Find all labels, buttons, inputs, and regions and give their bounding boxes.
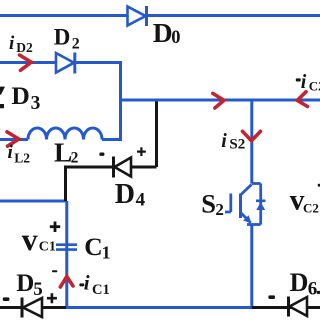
wire bottom black left: [0, 306, 66, 309]
svg-text:1: 1: [102, 242, 111, 262]
svg-text:5: 5: [33, 279, 43, 300]
arrow iL2: [7, 132, 19, 146]
label D0: [153, 17, 181, 48]
svg-text:C1: C1: [92, 282, 110, 298]
svg-text:C2: C2: [303, 201, 319, 216]
arrow -iC1: [60, 277, 73, 288]
svg-text:L2: L2: [14, 151, 30, 166]
label L2: [54, 136, 79, 167]
svg-text:D: D: [153, 17, 173, 48]
wire mid bus B: [119, 99, 320, 102]
label vC2: [290, 185, 319, 217]
wire black D4 vertical right: [155, 102, 158, 168]
wire top bus: [0, 14, 320, 17]
wire bottom black right: [252, 306, 320, 309]
svg-text:i: i: [221, 130, 227, 152]
wire black D4 vertical left: [64, 167, 67, 201]
svg-text:D: D: [54, 24, 71, 49]
svg-text:6: 6: [308, 279, 318, 300]
svg-text:i: i: [301, 71, 307, 93]
label D5: [16, 270, 43, 300]
diode D4: [114, 157, 132, 178]
svg-text:D: D: [16, 270, 34, 297]
label vC2 plus cropped: [318, 184, 320, 187]
label C1: [84, 232, 110, 262]
label D4: [115, 179, 146, 211]
wire black D4 horizontal: [64, 166, 157, 169]
svg-text:D: D: [11, 81, 29, 110]
svg-text:S2: S2: [229, 137, 245, 153]
diode D6: [289, 297, 308, 317]
inductor L2: [28, 128, 102, 140]
label D4 plus: [137, 147, 146, 156]
svg-text:D2: D2: [16, 40, 33, 55]
label -iC2: [301, 71, 320, 94]
wire vertical C: [250, 100, 253, 184]
wire vertical E C1 branch: [65, 201, 68, 308]
label D5 plus: [47, 293, 57, 303]
label iD2: [9, 33, 33, 55]
label D6: [290, 268, 318, 300]
svg-text:2: 2: [71, 150, 79, 167]
svg-text:0: 0: [171, 28, 180, 48]
label C1 minus: [52, 270, 57, 272]
svg-text:i: i: [84, 271, 90, 295]
label C1 plus: [50, 222, 60, 233]
wire vertical D: [250, 225, 253, 308]
wire D2 branch: [0, 61, 121, 64]
svg-text:4: 4: [136, 190, 146, 211]
S2 antiparallel diode: [256, 201, 266, 210]
wire vertical A: [119, 61, 122, 140]
svg-text:D: D: [115, 179, 135, 210]
diode D2: [56, 53, 75, 74]
diode D3 cropped stub: [0, 87, 5, 109]
label D4 minus: [99, 153, 104, 156]
arrow -iC2: [297, 92, 307, 107]
wire inductor branch: [0, 138, 122, 141]
arrow mid bus: [213, 93, 224, 108]
diode D5: [22, 298, 42, 318]
label iL2: [8, 142, 31, 165]
label D3: [11, 81, 40, 114]
label D5 minus: [3, 297, 10, 301]
label vC1: [22, 221, 56, 257]
diode D0: [128, 6, 147, 26]
capacitor C1: [56, 245, 77, 250]
wire bottom blue segment: [64, 306, 253, 309]
svg-text:C2: C2: [309, 79, 320, 94]
arrow iD2: [20, 55, 32, 70]
svg-text:2: 2: [72, 36, 80, 53]
label iS2: [221, 130, 245, 153]
label -iC1 minus: [79, 283, 84, 286]
svg-text:L: L: [54, 136, 72, 167]
svg-text:C1: C1: [39, 240, 56, 255]
wire F left C1 top: [0, 200, 67, 203]
svg-text:3: 3: [31, 93, 41, 114]
svg-text:v: v: [22, 221, 38, 257]
arrow iS2: [243, 131, 261, 141]
svg-text:i: i: [9, 33, 15, 54]
label D2: [54, 24, 80, 52]
label D6 trailing minus: [317, 291, 320, 294]
svg-text:D: D: [290, 268, 309, 297]
transistor S2 IGBT body: [225, 184, 261, 225]
label -iC1: [84, 271, 110, 298]
svg-text:2: 2: [215, 200, 224, 219]
label D6 minus: [268, 295, 275, 299]
label S2: [201, 189, 224, 219]
svg-text:C: C: [84, 232, 102, 261]
svg-text:S: S: [201, 189, 216, 219]
label -iC2 minus: [296, 78, 301, 81]
svg-text:i: i: [8, 142, 14, 163]
